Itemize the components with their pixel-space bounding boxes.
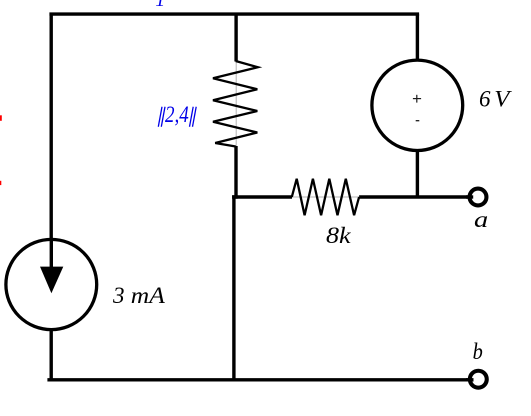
wire top horizontal [49,12,419,15]
wire 8k left segment [232,195,292,198]
voltage source minus sign [416,120,420,122]
wire middle vertical (resistor to 8k junction) [234,146,237,199]
wire below voltage source [416,149,419,197]
red speck 1 (left edge clipped text) [0,115,2,121]
wire left vertical (to current source) [50,14,53,269]
label 6 V [479,87,513,112]
terminal b ring [470,371,487,388]
wire left vertical lower (current source to bottom) [50,328,53,380]
svg-text:2,4: 2,4 [165,102,189,127]
wire 8k right segment to terminal a [359,195,473,198]
resistor 8k zigzag [292,179,359,215]
svg-text:mA: mA [131,283,166,308]
label ||2,4|| (blue) [158,107,196,127]
label 3 mA [112,283,166,308]
svg-text:8k: 8k [326,223,351,248]
resistor 8k axis line [292,196,359,198]
current source arrow [40,241,63,293]
svg-text:b: b [473,339,483,364]
wire middle vertical lower (junction to bottom) [232,195,235,379]
svg-text:3: 3 [112,283,125,308]
node 1 stub wire (top to resistor) [234,14,237,61]
wire voltage source stub top [416,14,419,63]
terminal a wire nub [466,195,473,198]
resistor ||2,4|| zigzag [213,61,258,147]
svg-text:6: 6 [479,87,491,112]
svg-text:a: a [474,207,488,232]
resistor ||2,4|| axis line [235,61,237,147]
svg-text:1: 1 [155,0,165,11]
voltage source plus sign [413,95,421,103]
current source I1 circle [6,239,97,329]
voltage source V1 circle [372,60,463,150]
terminal a ring [470,189,487,206]
wire bottom horizontal [47,378,473,381]
terminal b wire nub [466,378,474,381]
red speck 2 (left edge clipped text) [0,181,1,185]
